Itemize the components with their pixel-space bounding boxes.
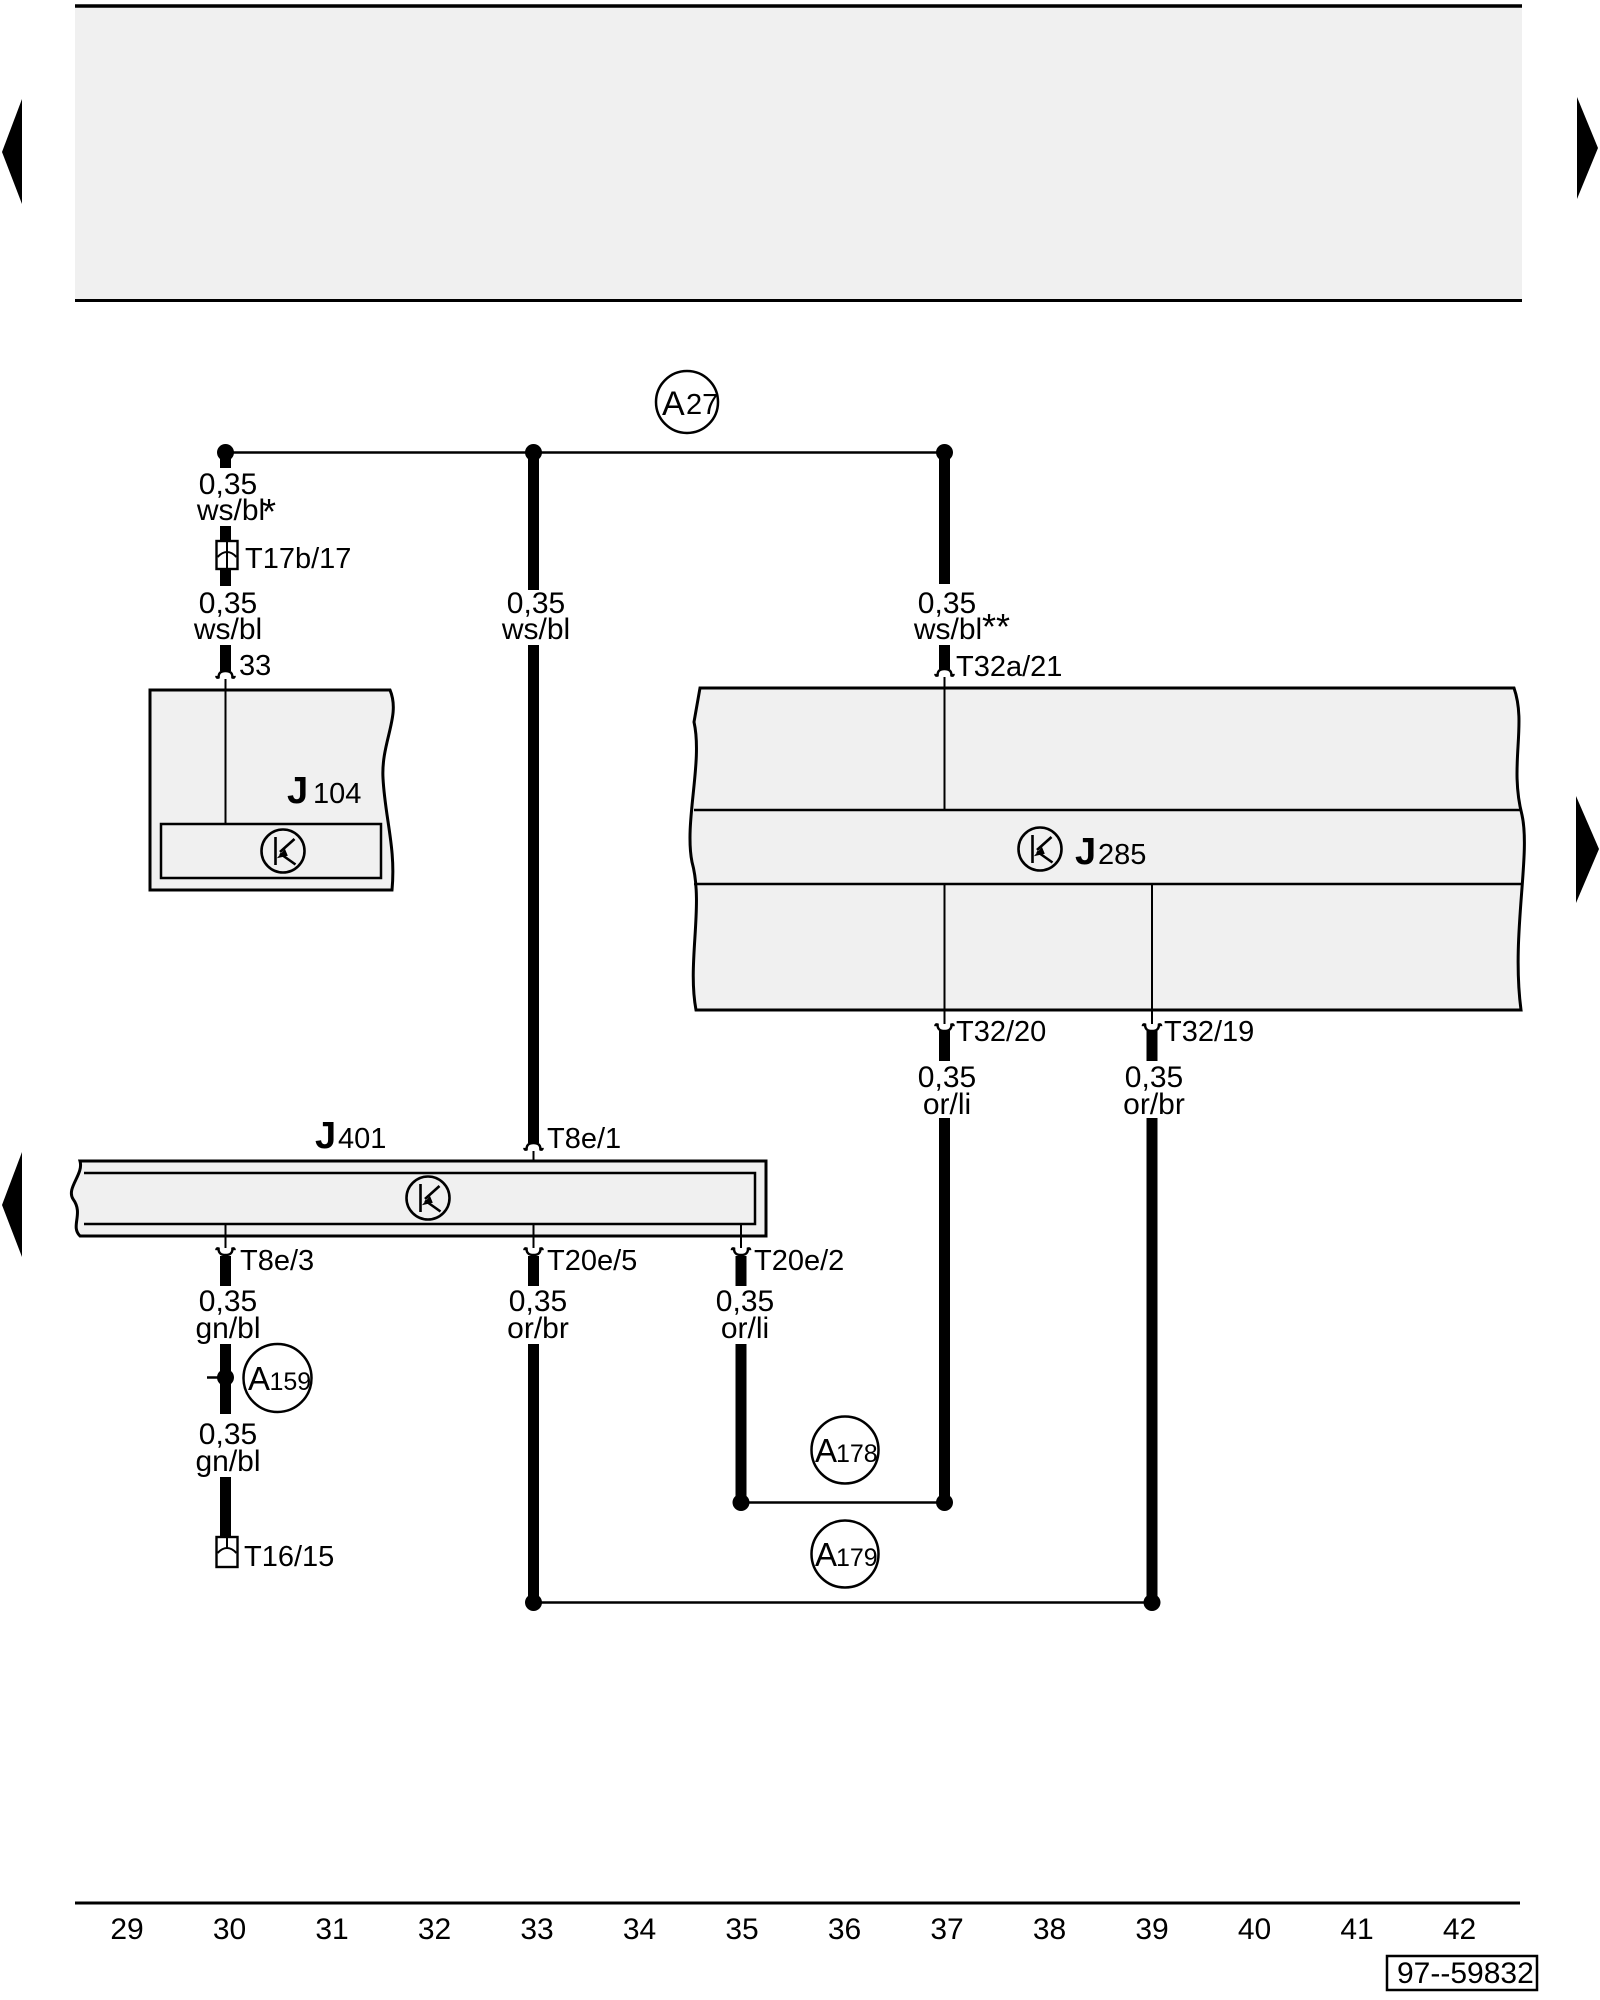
connector T16/15: [217, 1537, 238, 1567]
svg-text:97--59832: 97--59832: [1397, 1957, 1534, 1990]
wire 0,35 or/li col35: [736, 1256, 747, 1286]
junction dot col39 bottom: [1144, 1594, 1161, 1611]
svg-text:35: 35: [725, 1913, 758, 1946]
wire link col33 to col39: [534, 1601, 1153, 1604]
page-edge arrow right top: [1577, 97, 1598, 199]
wire 0,35 ws/bl** col37: [939, 452, 950, 584]
relay J401: [71, 1161, 766, 1236]
svg-text:38: 38: [1033, 1913, 1066, 1946]
svg-text:T20e/2: T20e/2: [754, 1245, 844, 1277]
svg-text:T8e/3: T8e/3: [240, 1245, 314, 1277]
svg-text:gn/bl: gn/bl: [195, 1312, 260, 1345]
wire 0,35 or/br col39: [1147, 1031, 1158, 1061]
drawing number box 97--59832: [1387, 1956, 1537, 1990]
wire 0,35 or/li col37: [939, 1031, 950, 1061]
svg-text:T32/20: T32/20: [956, 1016, 1046, 1048]
svg-text:gn/bl: gn/bl: [195, 1445, 260, 1478]
svg-text:ws/bl: ws/bl: [501, 613, 570, 646]
svg-text:104: 104: [313, 778, 361, 810]
svg-text:37: 37: [930, 1913, 963, 1946]
svg-text:33: 33: [520, 1913, 553, 1946]
svg-text:T17b/17: T17b/17: [245, 543, 351, 575]
svg-text:**: **: [982, 606, 1010, 647]
page-edge arrow left middle: [2, 1152, 22, 1257]
splice tick at A159: [207, 1376, 226, 1379]
node label A27: [656, 371, 718, 433]
page-edge arrow left top: [2, 99, 22, 204]
svg-text:27: 27: [686, 389, 718, 421]
svg-text:*: *: [262, 491, 276, 532]
svg-text:401: 401: [338, 1123, 386, 1155]
svg-text:29: 29: [110, 1913, 143, 1946]
svg-text:ws/bl: ws/bl: [196, 494, 265, 527]
svg-text:40: 40: [1238, 1913, 1271, 1946]
junction dot col37 bottom: [936, 1494, 953, 1511]
svg-text:T32/19: T32/19: [1164, 1016, 1254, 1048]
wire 0,35 gn/bl col30 lower: [220, 1477, 231, 1538]
svg-text:J: J: [315, 1115, 336, 1157]
svg-text:159: 159: [270, 1368, 312, 1396]
svg-text:A: A: [248, 1360, 270, 1397]
wire 0,35 or/br col33 lower: [528, 1256, 539, 1286]
svg-text:179: 179: [836, 1544, 878, 1572]
junction dot col35 bottom: [733, 1494, 750, 1511]
top info band: [75, 5, 1522, 301]
svg-text:or/li: or/li: [721, 1312, 769, 1345]
svg-text:or/br: or/br: [1123, 1088, 1185, 1121]
svg-text:T8e/1: T8e/1: [547, 1123, 621, 1155]
svg-text:or/br: or/br: [507, 1312, 569, 1345]
pin T8e/1 at J401: [524, 1143, 542, 1150]
pin T20e/2 at J401: [740, 1224, 742, 1248]
control unit J285: [690, 688, 1524, 1010]
svg-text:33: 33: [239, 650, 271, 682]
svg-text:42: 42: [1443, 1913, 1476, 1946]
page-edge arrow right middle: [1576, 796, 1599, 903]
wire 0,35 ws/bl* col30 upper: [220, 452, 231, 468]
svg-text:A: A: [815, 1536, 837, 1573]
node label A159: [244, 1344, 312, 1412]
pin T8e/3 at J401: [225, 1224, 227, 1248]
svg-text:31: 31: [315, 1913, 348, 1946]
svg-text:T32a/21: T32a/21: [956, 651, 1062, 683]
svg-text:or/li: or/li: [923, 1088, 971, 1121]
junction dot A159: [217, 1369, 234, 1386]
svg-text:41: 41: [1340, 1913, 1373, 1946]
junction dot col33: [525, 444, 542, 461]
relay symbol K in J285: [1019, 828, 1062, 871]
pin 33 at J104: [216, 671, 234, 678]
wire link col35 to col37: [741, 1501, 945, 1504]
connector T17b/17: [217, 541, 238, 569]
relay symbol K in J401: [407, 1177, 450, 1220]
svg-text:A: A: [815, 1432, 837, 1469]
control unit J104: [150, 690, 393, 890]
junction dot col37: [936, 444, 953, 461]
svg-text:34: 34: [623, 1913, 656, 1946]
wire 0,35 gn/bl col30: [220, 1256, 231, 1286]
pin T32a/21 at J285: [935, 669, 953, 676]
node label A178: [812, 1417, 879, 1484]
node label A179: [812, 1521, 879, 1588]
pin T32/20 at J285: [944, 1010, 946, 1024]
svg-text:T16/15: T16/15: [244, 1541, 334, 1573]
svg-text:30: 30: [213, 1913, 246, 1946]
svg-text:39: 39: [1135, 1913, 1168, 1946]
junction dot col33 bottom: [525, 1594, 542, 1611]
wire 0,35 ws/bl col33: [528, 452, 539, 590]
relay symbol K in J104: [262, 830, 305, 873]
pin T20e/5 at J401: [533, 1224, 535, 1248]
svg-text:285: 285: [1098, 839, 1146, 871]
junction dot col30: [217, 444, 234, 461]
svg-text:A: A: [662, 385, 685, 423]
wire: positive rail from A27: [226, 451, 945, 454]
svg-text:T20e/5: T20e/5: [547, 1245, 637, 1277]
svg-text:32: 32: [418, 1913, 451, 1946]
svg-text:J: J: [287, 770, 308, 812]
wire 0,35 ws/bl col30 lower: [220, 568, 231, 586]
svg-text:ws/bl: ws/bl: [913, 613, 982, 646]
svg-text:J: J: [1075, 831, 1096, 873]
pin T32/19 at J285: [1151, 1010, 1153, 1024]
svg-text:ws/bl: ws/bl: [193, 613, 262, 646]
svg-text:36: 36: [828, 1913, 861, 1946]
current track scale line: [75, 1902, 1520, 1905]
svg-text:178: 178: [836, 1440, 878, 1468]
